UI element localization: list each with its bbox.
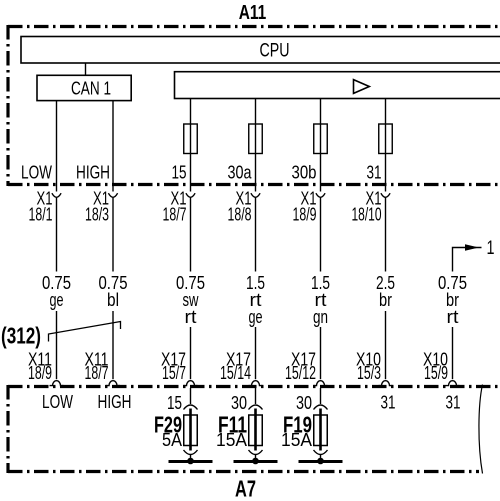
svg-text:18/7: 18/7 xyxy=(85,363,109,383)
wire terminal 15 from box to connector X1 xyxy=(190,99,192,192)
junction node (ground, F11) xyxy=(252,458,259,465)
CAN 1 box xyxy=(37,75,131,100)
wire column 2 below colour label xyxy=(112,311,114,379)
connector X10 15/3 plug symbol xyxy=(379,381,393,386)
wire terminal 30b below connector X1 xyxy=(320,198,322,272)
svg-text:31: 31 xyxy=(446,393,461,413)
wire terminal 31 below connector X1 xyxy=(385,198,387,272)
pin block on terminal 30a wire xyxy=(249,124,263,154)
connector X1 18/7 socket symbol xyxy=(186,193,195,197)
connector X1 18/8 socket symbol xyxy=(251,193,260,197)
connector X11 18/7 plug symbol xyxy=(106,381,120,386)
wire from connector to fuse F19 xyxy=(320,388,322,404)
buffer symbol (triangle) xyxy=(354,80,370,94)
svg-text:(312): (312) xyxy=(1,323,41,349)
control unit A11 dashed frame bottom border xyxy=(8,183,500,186)
connector X17 15/14 plug symbol xyxy=(249,381,263,386)
svg-text:31: 31 xyxy=(367,163,382,183)
wire column 7 below colour label xyxy=(452,327,454,379)
connector X1 18/10 socket symbol xyxy=(381,193,390,197)
wire fuse F11 to ground node xyxy=(255,455,257,461)
svg-text:31: 31 xyxy=(381,393,396,413)
component A7 dashed frame bottom border xyxy=(8,470,479,473)
wire CPU to CAN 1 xyxy=(85,63,87,75)
svg-text:18/1: 18/1 xyxy=(29,205,53,225)
svg-text:18/7: 18/7 xyxy=(163,205,187,225)
svg-text:18/9: 18/9 xyxy=(293,205,317,225)
svg-text:HIGH: HIGH xyxy=(98,392,132,412)
wire terminal 30a below connector X1 xyxy=(255,198,257,272)
svg-text:5A: 5A xyxy=(162,430,182,450)
fuse F11 bottom clip xyxy=(249,450,263,455)
wire fuse F19 to ground node xyxy=(320,455,322,461)
svg-text:18/10: 18/10 xyxy=(352,205,382,225)
fuse F11 body xyxy=(249,415,263,446)
svg-text:A11: A11 xyxy=(239,1,267,24)
svg-text:br: br xyxy=(379,290,392,310)
component A7 torn-edge mark (right) xyxy=(479,385,483,474)
wire column 4 below colour label xyxy=(255,327,257,379)
wire column 5 below colour label xyxy=(320,327,322,379)
svg-text:CAN 1: CAN 1 xyxy=(71,79,111,99)
fuse F11 element wire xyxy=(254,409,257,451)
pin block on terminal 31 wire xyxy=(379,124,393,154)
svg-text:15/14: 15/14 xyxy=(220,363,251,383)
junction node (ground, F19) xyxy=(317,458,324,465)
svg-text:A7: A7 xyxy=(235,476,256,501)
connector X1 18/3 socket symbol xyxy=(108,193,117,197)
wire fuse F29 to ground node xyxy=(190,455,192,461)
wire CAN LOW from box to connector X1 xyxy=(56,101,58,192)
wire from connector to fuse F29 xyxy=(190,388,192,404)
connector X1 18/1 socket symbol xyxy=(52,193,61,197)
svg-text:LOW: LOW xyxy=(21,163,52,183)
svg-text:gn: gn xyxy=(313,307,328,327)
svg-text:CPU: CPU xyxy=(260,41,290,62)
control unit A11 dashed frame top border xyxy=(8,25,500,28)
svg-text:18/9: 18/9 xyxy=(28,363,52,383)
svg-text:30: 30 xyxy=(296,393,312,413)
svg-text:15A: 15A xyxy=(216,430,247,450)
wire CAN HIGH from box to connector X1 xyxy=(112,101,114,192)
svg-text:rt: rt xyxy=(447,307,459,327)
fuse F29 body xyxy=(184,415,198,446)
svg-text:bl: bl xyxy=(107,290,119,310)
wire column 6 below colour label xyxy=(385,311,387,379)
fuse F19 bottom clip xyxy=(314,450,328,455)
output stage box xyxy=(175,72,500,99)
ground bus bar (F19) xyxy=(299,460,343,463)
svg-text:ge: ge xyxy=(50,290,64,310)
svg-text:rt: rt xyxy=(185,307,197,327)
connector X11 18/9 plug symbol xyxy=(50,381,64,386)
fuse F29 element wire xyxy=(189,409,192,451)
svg-text:18/8: 18/8 xyxy=(228,205,252,225)
wire CAN LOW below connector X1 xyxy=(56,198,58,272)
wire from connector to fuse F11 xyxy=(255,388,257,404)
svg-text:30: 30 xyxy=(231,393,247,413)
control unit A11 dashed frame left border xyxy=(6,25,9,186)
connector X10 15/9 plug symbol xyxy=(446,381,460,386)
leader line for (312) xyxy=(49,322,121,342)
wire terminal 15 below connector X1 xyxy=(190,198,192,272)
fuse F19 body xyxy=(314,415,328,446)
wire CAN HIGH below connector X1 xyxy=(112,198,114,272)
wire terminal 30a from box to connector X1 xyxy=(255,99,257,192)
fuse F19 element wire xyxy=(319,409,322,451)
pin block on terminal 30b wire xyxy=(314,124,328,154)
ground bus bar (F11) xyxy=(234,460,278,463)
svg-text:30b: 30b xyxy=(292,163,317,183)
svg-text:15A: 15A xyxy=(281,430,312,450)
component A7 dashed frame left border xyxy=(6,385,9,473)
fuse F29 top clip xyxy=(184,405,198,410)
svg-text:LOW: LOW xyxy=(42,392,73,412)
svg-text:18/3: 18/3 xyxy=(85,205,109,225)
svg-text:15/3: 15/3 xyxy=(357,363,381,383)
component A7 dashed frame top border xyxy=(8,385,500,388)
svg-text:ge: ge xyxy=(249,307,263,327)
fuse F29 bottom clip xyxy=(184,450,198,455)
fuse F11 top clip xyxy=(249,405,263,410)
pin block on terminal 15 wire xyxy=(184,124,198,154)
CPU box xyxy=(21,37,500,64)
junction node (ground, F29) xyxy=(187,458,194,465)
connector X17 15/12 plug symbol xyxy=(314,381,328,386)
wire column 3 below colour label xyxy=(190,327,192,379)
svg-text:15/7: 15/7 xyxy=(162,363,186,383)
wire terminal 31 from off-page arrow xyxy=(453,248,482,272)
wire terminal 30b from box to connector X1 xyxy=(320,99,322,192)
ground bus bar (F29) xyxy=(169,460,213,463)
arrowhead to coordinate 1 xyxy=(465,244,479,250)
svg-text:15: 15 xyxy=(167,393,182,413)
svg-text:30a: 30a xyxy=(228,163,253,183)
svg-text:1: 1 xyxy=(487,238,495,259)
connector X1 18/9 socket symbol xyxy=(316,193,325,197)
svg-text:15/9: 15/9 xyxy=(424,363,448,383)
connector X17 15/7 plug symbol xyxy=(184,381,198,386)
svg-text:HIGH: HIGH xyxy=(76,163,110,183)
wire column 1 below colour label xyxy=(56,311,58,379)
fuse F19 top clip xyxy=(314,405,328,410)
wire terminal 31 from box to connector X1 xyxy=(385,99,387,192)
svg-text:15: 15 xyxy=(172,163,187,183)
svg-text:15/12: 15/12 xyxy=(285,363,316,383)
